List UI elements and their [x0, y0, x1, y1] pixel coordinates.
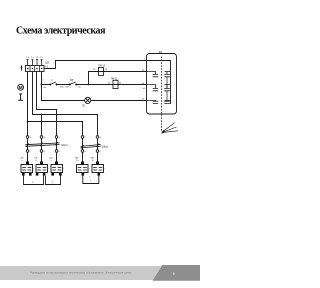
wire: series link E2-E3 [46, 176, 61, 185]
fuse PM13 [99, 68, 104, 76]
block pin labels 1,42,43,44 [142, 59, 146, 101]
svg-text:Ш1(х): Ш1(х) [61, 145, 67, 147]
arrow head of motor branch [21, 65, 23, 68]
wire: pin2 down, bend right, drop to right-group node B [33, 72, 98, 165]
svg-text:в: в [43, 79, 44, 81]
wire: lamp row to block pin 4 [91, 100, 147, 102]
heater element E3 body [51, 165, 63, 173]
svg-text:1 3: 1 3 [26, 57, 29, 59]
wire: branch from pin1 to right-group node A [28, 122, 83, 165]
block internal right bus stubs [166, 77, 168, 101]
svg-text:2 4: 2 4 [31, 57, 34, 59]
connector pin circles, upper row [26, 136, 29, 139]
connector X1 pin caps [27, 59, 43, 61]
heater element E2 body [36, 165, 48, 173]
wire number labels [43, 69, 147, 90]
wire: pin1 down to lower node 1 [27, 72, 29, 165]
switch S2 contacts [69, 84, 71, 86]
svg-text:ШЗ: ШЗ [45, 63, 49, 65]
footer corner polygon [153, 265, 201, 281]
connector pin circles, lower row [26, 150, 29, 153]
heater side labels [33, 168, 105, 170]
connector X1 cell contacts [27, 68, 29, 70]
wire: pin4 down, bend to lamp row [42, 72, 85, 101]
block pin 2 contact bars [153, 75, 170, 77]
harness bar Sh6 hatches [81, 144, 99, 149]
junction: h1 / drop to node 2 [41, 114, 43, 116]
heater element E1 body [21, 165, 33, 173]
pin numbers above connector X1 [26, 57, 43, 59]
junction: pin4 / switch row [41, 84, 43, 86]
junction: pin1 / branch h2 [27, 121, 29, 123]
pin circle labels [30, 137, 102, 153]
svg-text:Руководство по эксплуатации и: Руководство по эксплуатации и техническо… [30, 271, 132, 275]
dashed mechanical linkage [161, 57, 163, 133]
heater E4 inner grid [78, 168, 87, 171]
terminal labels [21, 158, 95, 163]
connector block Sh2 body [147, 54, 177, 115]
svg-text:1 3: 1 3 [36, 57, 39, 59]
ground (chassis) [18, 94, 23, 100]
wire: riser from switch row to fuse row, to block pin 2 [89, 72, 147, 85]
link labels [32, 176, 92, 183]
block pin 4 contact bars [153, 101, 170, 103]
fuse PM11 [113, 80, 118, 88]
harness bar Sh6 [81, 145, 101, 149]
arrow fan rays [162, 123, 178, 133]
heater E2 inner grid [37, 168, 46, 171]
wire: connector X1 output to node row1, to block pin 1 [44, 61, 147, 69]
svg-text:9: 9 [173, 272, 175, 276]
wire: switch row to block pin 3 [42, 84, 147, 86]
connector X1 body [26, 66, 45, 72]
block pin 4 contact leads [147, 100, 171, 103]
harness bar Sh1 [25, 143, 59, 146]
lamp L2 cross [86, 99, 90, 103]
connector X1 cell dividers [30, 66, 39, 72]
lamp L2 body [85, 97, 91, 103]
heater bottom terminals [22, 173, 25, 176]
arrow fan head [161, 130, 165, 134]
footer bar [0, 266, 200, 280]
heater top terminals [26, 162, 29, 165]
svg-text:ПМ 13: ПМ 13 [98, 65, 105, 67]
heater E1 inner grid [22, 168, 31, 171]
junction: switch row / riser [88, 84, 90, 86]
connector X1 pin stubs 1-4 [28, 60, 42, 66]
block pin 2 contact leads [147, 72, 171, 75]
wire: series link E1-E2 [24, 176, 44, 185]
svg-text:Ш6(х): Ш6(х) [102, 147, 108, 149]
block pin 3 contact bars [153, 89, 170, 91]
svg-text:ВР: ВР [70, 80, 74, 82]
switch S1 blade [51, 82, 57, 84]
wire: pin3 down, bend right, drop to lower node 3 [37, 72, 57, 165]
fuse PM11 terminals [112, 84, 113, 85]
heater element E5 body [92, 165, 104, 173]
heater E3 inner grid [52, 168, 61, 171]
switch S2 blade [70, 82, 76, 84]
wire: series link E4-E5 [83, 176, 99, 184]
harness bar Sh1 hatches [26, 142, 58, 147]
svg-text:М: М [19, 85, 23, 90]
svg-text:Схема электрическая: Схема электрическая [16, 26, 106, 37]
wire: drop from junction to lower node 2 [41, 115, 43, 165]
svg-text:ПМ 11: ПМ 11 [111, 78, 118, 80]
block pin 3 contact leads [147, 85, 171, 89]
heater element E4 body [77, 165, 89, 173]
fuse PM13 terminals [97, 71, 98, 72]
svg-text:2 4: 2 4 [40, 57, 43, 59]
switch S1 contacts [49, 84, 51, 86]
motor M body [18, 84, 24, 90]
heater E5 inner grid [93, 168, 102, 171]
block internal bus from pin 1 [147, 61, 171, 105]
wire stub to motor branch [21, 67, 23, 71]
